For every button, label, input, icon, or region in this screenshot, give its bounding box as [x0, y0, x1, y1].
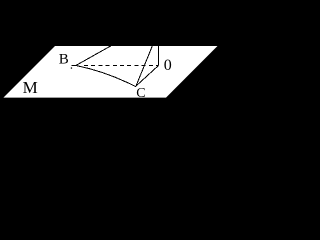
wire: vertical altitude line down to O: [158, 46, 160, 66]
svg-text:B: B: [59, 51, 69, 67]
wire: edge apex-to-B (apex hidden above black band): [76, 46, 112, 66]
wire: segment O to C: [136, 66, 159, 87]
svg-text:0: 0: [164, 57, 172, 74]
wire: dashed segment B to O: [84, 65, 159, 67]
wire: edge apex-to-C (apex hidden above black band): [136, 46, 153, 87]
wire: segment B to C (slightly bowed): [76, 66, 136, 87]
wire: short solid tail at left of vertex B: [71, 65, 77, 67]
plane (white parallelogram): [3, 46, 217, 98]
svg-text:C: C: [136, 86, 145, 101]
speck below B vertex: [71, 67, 72, 68]
svg-text:M: M: [23, 78, 38, 97]
